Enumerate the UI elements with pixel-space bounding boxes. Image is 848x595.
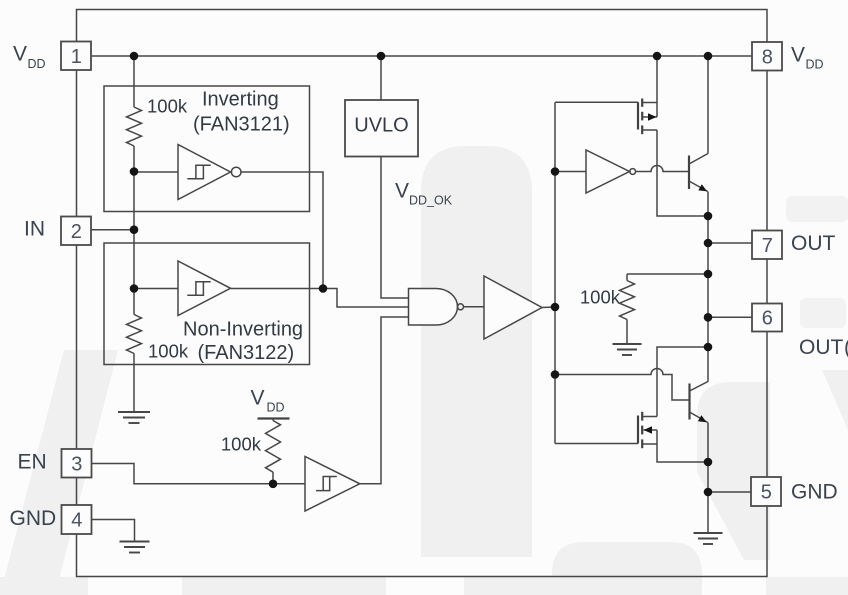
resistor R1 100k pull-up: [127, 107, 142, 146]
resistor R2 100k pull-down: [127, 315, 142, 354]
wire Q2 emitter to OUT: [707, 192, 709, 382]
svg-text:OUT: OUT: [791, 232, 836, 255]
wire PMOS gate: [555, 101, 638, 103]
buffer U2: [484, 276, 542, 339]
wire Q2 collector to VDD: [707, 56, 709, 154]
transistor Q1 PMOS: [638, 99, 657, 135]
wire VDD_OK to NAND input A: [381, 157, 409, 299]
wire ST2 input: [134, 288, 178, 290]
svg-text:OUT: OUT: [799, 336, 844, 359]
wire ST3 output to NAND input C: [360, 317, 409, 484]
IC boundary: [77, 10, 768, 577]
svg-text:V: V: [791, 44, 805, 67]
schmitt inverter ST1: [178, 145, 231, 200]
svg-text:4: 4: [71, 510, 82, 532]
svg-text:100k: 100k: [147, 96, 188, 117]
svg-text:7: 7: [762, 235, 773, 257]
svg-text:100k: 100k: [148, 341, 189, 362]
svg-text:Inverting: Inverting: [202, 88, 279, 110]
wire EN to schmitt ST3: [92, 464, 306, 484]
wire U3 input: [555, 171, 586, 173]
schmitt buffer ST3 EN: [305, 457, 360, 512]
wire UVLO to VDD rail: [380, 56, 382, 100]
wire NAND output to buffer: [464, 306, 485, 308]
pin 3 box: [62, 449, 92, 478]
wire pin7: [708, 242, 752, 244]
svg-text:Non-Inverting: Non-Inverting: [183, 319, 303, 341]
ground below R2: [118, 412, 150, 423]
pin 7 box: [752, 231, 782, 260]
svg-text:1: 1: [71, 46, 82, 68]
svg-text:EN: EN: [18, 450, 47, 473]
svg-text:(: (: [844, 336, 848, 359]
svg-text:GND: GND: [10, 507, 57, 530]
svg-text:IN: IN: [24, 217, 45, 240]
svg-text:DD: DD: [806, 57, 824, 71]
wire mux node to NAND input B: [323, 289, 409, 308]
wire pin4 to ground: [92, 520, 135, 542]
svg-text:V: V: [251, 387, 265, 410]
wire Q1 source to VDD: [656, 56, 658, 117]
wire Q4 emitter down: [707, 423, 709, 534]
svg-text:(FAN3122): (FAN3122): [198, 342, 295, 364]
svg-text:(FAN3121): (FAN3121): [193, 114, 290, 136]
svg-text:5: 5: [761, 482, 772, 504]
svg-text:100k: 100k: [221, 434, 262, 455]
svg-text:DD_OK: DD_OK: [409, 194, 453, 208]
svg-text:V: V: [395, 179, 409, 202]
transistor Q2 NPN: [689, 154, 708, 192]
resistor R3 100k EN pull-up: [272, 419, 274, 421]
ground main GND: [694, 533, 723, 544]
transistor Q4 NPN: [690, 382, 709, 423]
svg-text:GND: GND: [791, 480, 838, 503]
wire driver node vertical: [554, 102, 556, 443]
wire pin5: [708, 491, 751, 493]
junction dots: [130, 52, 139, 61]
pin 8 box: [752, 42, 782, 71]
resistor R4 100k on OUT: [627, 273, 708, 275]
svg-text:100k: 100k: [580, 287, 621, 308]
wire Q4 base from driver node with hop: [555, 369, 690, 401]
wire buffer output to driver node: [542, 306, 555, 309]
wire pin2 to IN node: [91, 229, 134, 231]
svg-text:6: 6: [762, 308, 773, 330]
schmitt buffer ST2: [178, 261, 231, 316]
svg-text:8: 8: [762, 47, 773, 69]
wire ST1 output to mux node: [241, 172, 323, 289]
block UVLO box: [345, 100, 418, 157]
block Inverting (FAN3121) box: [104, 86, 310, 212]
wire U3 output to Q2 base with hop: [636, 166, 689, 172]
wire VDD rail: [91, 55, 752, 57]
pin 6 box: [752, 304, 782, 332]
inverter U3: [586, 150, 630, 193]
wire pin6: [708, 316, 752, 318]
node IN vertical rail: [133, 56, 135, 107]
wire NMOS gate: [555, 443, 638, 445]
svg-text:UVLO: UVLO: [354, 115, 408, 137]
wire ST2 output to mux node: [231, 288, 324, 290]
svg-text:V: V: [13, 43, 27, 66]
svg-text:DD: DD: [267, 400, 285, 414]
wire Q3 source to GND node: [657, 430, 708, 462]
ground pin4: [120, 542, 150, 553]
svg-text:2: 2: [71, 221, 82, 243]
pin 4 box: [62, 505, 92, 534]
NAND gate U1: [409, 289, 458, 326]
svg-text:3: 3: [71, 454, 82, 476]
pin 1 box: [61, 42, 91, 71]
wire OUT node to Q3 drain: [657, 347, 708, 417]
ground below R4: [613, 344, 642, 355]
pin 5 box: [751, 477, 781, 506]
svg-text:DD: DD: [28, 57, 46, 71]
transistor Q3 NMOS: [638, 412, 657, 448]
supply VDD for EN pull-up: [258, 417, 290, 419]
block Non-Inverting (FAN3122) box: [104, 243, 310, 365]
pin 2 box: [61, 217, 91, 246]
wire ST1 input: [134, 171, 178, 173]
wire Q1 drain down: [657, 130, 708, 216]
